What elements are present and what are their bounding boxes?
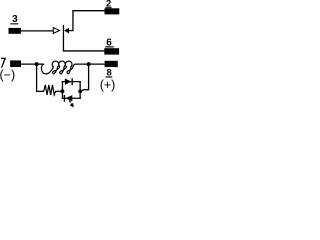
terminal 6: [104, 48, 119, 54]
riser wire up to node B: [88, 64, 90, 90]
LED D2 triangle: [65, 95, 72, 101]
pin label 7: [1, 58, 5, 67]
pin label 8: [106, 67, 113, 78]
svg-text:(+): (+): [100, 78, 116, 92]
wire terminal 7 to node A: [21, 63, 44, 65]
resistor R1: [44, 85, 63, 95]
pin label 6: [105, 38, 114, 49]
wire from terminal 3 to movable contact: [21, 30, 54, 32]
wire from contact bar to terminal 6: [63, 50, 105, 52]
terminal 2: [105, 8, 120, 14]
fixed contact filled arrow of terminal 2: [64, 28, 69, 34]
junction node B: [87, 62, 91, 66]
diode frame right side: [79, 81, 81, 99]
svg-text:(−): (−): [0, 68, 15, 82]
terminal 8: [105, 61, 118, 67]
wire coil to terminal 8: [75, 63, 105, 65]
junction node D: [78, 89, 82, 93]
pin label 2: [105, 0, 111, 10]
terminal 3: [9, 28, 21, 34]
wire from contact arrow up to terminal 2: [69, 11, 105, 31]
diode D1 triangle: [65, 78, 71, 85]
junction node A: [35, 62, 39, 66]
wire node A down to resistor: [37, 64, 44, 91]
diode D1 cathode bar: [72, 78, 73, 85]
wire node D to riser: [80, 90, 88, 92]
diode frame left side: [61, 81, 63, 99]
diode frame bottom side: [62, 97, 81, 99]
relay coil: [41, 61, 75, 74]
pin label 3: [10, 14, 18, 25]
LED emission arrow: [67, 99, 75, 108]
terminal 7: [10, 60, 21, 67]
movable contact open arrow: [53, 28, 59, 34]
contact bar of terminal 6: [62, 25, 64, 51]
junction node C: [60, 89, 64, 93]
LED D2 cathode bar: [64, 95, 65, 102]
diode frame top side: [62, 81, 81, 83]
